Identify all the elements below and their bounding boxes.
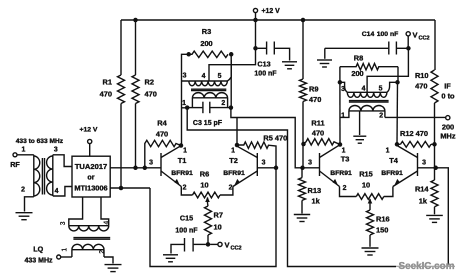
terminal LQ [57, 255, 61, 259]
ground C14 [317, 60, 332, 67]
label T2 pin2 [229, 185, 233, 192]
junction base/R2 [133, 166, 138, 171]
node TR2 right [395, 80, 400, 85]
label T3 [341, 155, 350, 164]
svg-text:1k: 1k [419, 197, 428, 206]
svg-text:470: 470 [145, 90, 157, 99]
svg-text:MHz: MHz [440, 132, 455, 141]
junction C13 branch [253, 46, 258, 51]
svg-text:R9: R9 [309, 85, 318, 94]
label TR1 pin1 [182, 100, 186, 107]
svg-text:V: V [225, 241, 230, 250]
wire TUA pin7 to T1 base [110, 167, 161, 169]
wire +12V drop to tap [209, 20, 256, 81]
wire pin1 to T2/T4 bases [187, 108, 448, 267]
ground C15 [163, 255, 178, 262]
node TR1 pin2 [229, 105, 234, 110]
wire TUA pin6 [110, 187, 150, 189]
label RF pin1 [21, 147, 25, 154]
svg-text:200: 200 [351, 69, 363, 78]
svg-text:4: 4 [362, 86, 366, 93]
label TR2 pin4 [362, 86, 366, 93]
wire T2 emitter lead [220, 187, 233, 196]
label R2 [145, 78, 157, 99]
junction rail/R2 [133, 18, 138, 23]
svg-text:2: 2 [379, 112, 383, 119]
svg-text:V: V [413, 31, 418, 40]
junction T3 base [300, 166, 305, 171]
svg-text:R4: R4 [157, 119, 167, 128]
node T3 collector [338, 142, 343, 147]
svg-text:R8: R8 [354, 54, 363, 63]
wire IF line [385, 116, 446, 118]
node TR2 left [338, 80, 343, 85]
svg-text:4: 4 [104, 221, 111, 225]
wire R9 bottom lead [302, 102, 304, 168]
ground LO [105, 265, 122, 272]
wire pin6 loop to T2 base [150, 168, 276, 267]
label RF pin4 [55, 188, 59, 195]
resistor R13 [299, 168, 306, 214]
label T1 [178, 156, 187, 165]
label LO pin2 [99, 250, 106, 254]
transistor T4 [393, 146, 418, 187]
wire TR2 right column [396, 82, 399, 144]
svg-text:10: 10 [200, 181, 208, 190]
svg-text:IF: IF [444, 82, 451, 91]
wire T1 emitter lead [181, 187, 192, 196]
svg-text:RF: RF [10, 160, 20, 169]
wire R6 wiper to R7 [207, 203, 210, 206]
svg-text:1: 1 [342, 148, 346, 155]
core TR1 [191, 89, 226, 90]
wire T2 base [257, 167, 276, 169]
label R14 [415, 185, 429, 206]
capacitor C15 [171, 238, 206, 254]
svg-text:470: 470 [312, 129, 324, 138]
wire TR1 right side [230, 54, 232, 107]
transistor T3 [320, 145, 341, 187]
svg-text:R13: R13 [308, 186, 322, 195]
wire RF to winding [17, 154, 34, 156]
wire R8 left down [339, 67, 341, 83]
svg-text:+12 V: +12 V [262, 8, 281, 15]
label T4 pin3 [422, 160, 426, 167]
wire right column mid [434, 144, 436, 168]
label MHz [440, 132, 455, 141]
svg-text:10: 10 [214, 223, 222, 232]
wire RF sec top to TUA [53, 155, 72, 167]
ground R16 [362, 248, 379, 255]
wire TR2 ground stub [359, 111, 361, 135]
wire T3 emitter lead [340, 187, 357, 197]
wire LO right to ground [104, 257, 113, 264]
wire +12V to box [89, 144, 91, 157]
label T3 pin3 [308, 160, 312, 167]
label T3 pin2 [343, 185, 347, 192]
label 0 to [441, 92, 455, 101]
svg-text:433 MHz: 433 MHz [24, 258, 53, 265]
terminal RF [13, 153, 17, 157]
junction VCC2/C14 [406, 46, 411, 51]
wire R10 bottom lead [434, 103, 436, 144]
svg-text:10: 10 [362, 181, 370, 190]
wire R15 wiper to R16 [369, 205, 371, 211]
wire R1 bottom lead [120, 104, 122, 189]
resistor R14 [431, 168, 438, 215]
svg-text:1: 1 [62, 248, 69, 252]
winding TR2 secondary [340, 106, 385, 118]
resistor R16 [367, 210, 374, 235]
svg-text:1: 1 [21, 147, 25, 154]
junction R9/R11 [301, 142, 306, 147]
wire TR2 left column [339, 82, 341, 144]
winding RF secondary [47, 155, 53, 196]
svg-text:1: 1 [231, 148, 235, 155]
label T3 BFR91 [330, 170, 352, 177]
wire VCC2 to tap4 [367, 48, 408, 92]
node T2 collector [235, 143, 240, 148]
watermark SeekIC.com [396, 261, 456, 272]
svg-text:T3: T3 [341, 155, 350, 164]
label +12 V top [262, 8, 281, 15]
label R5 470 [263, 133, 287, 142]
svg-text:200: 200 [442, 123, 454, 132]
svg-text:3: 3 [54, 147, 58, 154]
capacitor C14 [325, 42, 409, 55]
svg-text:C15: C15 [180, 214, 193, 223]
svg-text:R11: R11 [311, 119, 324, 128]
label R6 pin2 left [0, 0, 1, 1]
resistor R3 [189, 51, 228, 57]
core RF [42, 158, 44, 195]
svg-text:433 to 633 MHz: 433 to 633 MHz [16, 138, 64, 145]
core TR2 [349, 101, 389, 102]
label R1 [100, 78, 112, 99]
label R4 [156, 119, 168, 139]
wire LO left to terminal [61, 256, 72, 258]
wire R16 to ground [369, 235, 371, 247]
node TR1 pin1 [185, 105, 190, 110]
svg-text:150: 150 [376, 226, 388, 235]
label R15 [359, 170, 373, 190]
label TR1 pin4 [202, 73, 206, 80]
wire R2 bottom lead [135, 104, 137, 168]
node T2 base [274, 166, 279, 171]
label LQ [33, 245, 43, 254]
resistor R4 [145, 140, 181, 168]
label T4 BFR91 [381, 170, 403, 177]
svg-text:3: 3 [60, 221, 67, 225]
wire R1 top lead [120, 20, 122, 75]
label 433 to 633 MHz [16, 138, 64, 145]
label TR2 pin3 [341, 86, 345, 93]
label T4 pin1 [386, 148, 390, 155]
svg-text:2: 2 [229, 185, 233, 192]
label R6 [200, 170, 209, 190]
svg-text:BFR91: BFR91 [223, 170, 245, 177]
label TR1 pin3 [183, 73, 187, 80]
terminal IF [446, 116, 450, 120]
svg-text:470: 470 [156, 130, 168, 139]
label R13 [308, 186, 322, 206]
svg-text:R5 470: R5 470 [263, 133, 287, 142]
svg-text:R10: R10 [415, 71, 429, 80]
svg-text:R2: R2 [145, 78, 154, 87]
svg-text:T1: T1 [178, 156, 187, 165]
wire R9 top lead [302, 20, 304, 79]
resistor R7 [205, 206, 212, 235]
wire RF sec bottom to TUA [53, 187, 72, 197]
winding RF primary [34, 155, 40, 197]
resistor R10 [431, 70, 438, 103]
junction T4 base [433, 166, 438, 171]
label LO pin1 [62, 248, 69, 252]
svg-text:BFR91: BFR91 [330, 170, 352, 177]
label R9 [309, 85, 321, 105]
label R10 [415, 71, 429, 91]
ground C13 [282, 62, 297, 69]
terminal VCC2 bottom [218, 242, 222, 246]
svg-text:R3: R3 [202, 27, 211, 36]
svg-text:3: 3 [422, 160, 426, 167]
node T4 collector [395, 142, 400, 147]
svg-text:2: 2 [343, 185, 347, 192]
svg-text:T4: T4 [389, 156, 399, 165]
wire R7 to VCC2 [207, 235, 209, 244]
label R8 200 [351, 69, 363, 78]
label C3 [193, 120, 223, 127]
svg-text:3: 3 [308, 160, 312, 167]
svg-text:1: 1 [386, 148, 390, 155]
svg-text:5: 5 [218, 73, 222, 80]
svg-text:CC2: CC2 [231, 246, 242, 252]
ground R14 [426, 215, 443, 222]
svg-text:1: 1 [341, 112, 345, 119]
svg-text:470: 470 [309, 95, 321, 104]
label T1 pin2 [183, 185, 187, 192]
wire VCC2 bottom lead [210, 243, 218, 245]
svg-text:2: 2 [183, 185, 187, 192]
svg-text:BFR91: BFR91 [171, 170, 193, 177]
junction R7/C15 [206, 242, 211, 247]
label TR2 pin2 [379, 112, 383, 119]
label TUA2017 [74, 162, 107, 193]
resistor R6 trimmer [193, 192, 221, 203]
svg-text:100 nF: 100 nF [175, 228, 198, 235]
terminal VCC2 top [406, 32, 410, 36]
ground R13 [294, 215, 310, 222]
svg-text:0 to: 0 to [441, 92, 455, 101]
label RF pin2 [21, 187, 25, 194]
junction base/R4 [143, 166, 148, 171]
winding TR1 secondary [192, 93, 227, 108]
svg-text:200: 200 [200, 39, 212, 48]
label T2 pin3 [262, 160, 266, 167]
resistor R15 trimmer [356, 194, 384, 205]
junction pin6/R1 [119, 186, 124, 191]
ic TUA2017 box [72, 156, 110, 197]
label 433 MHz [24, 258, 53, 265]
svg-text:R15: R15 [359, 170, 373, 179]
label RF [10, 160, 20, 169]
wire T2 collector up [236, 118, 238, 146]
wire RF primary to gnd [25, 197, 34, 212]
svg-text:R6: R6 [200, 170, 209, 179]
label 200 [442, 123, 454, 132]
label TR2 pin5 [379, 86, 383, 93]
wire R2 top lead [135, 20, 137, 75]
svg-text:2: 2 [221, 100, 225, 107]
label C14 100nF [362, 31, 399, 38]
ground TR2 [353, 136, 366, 143]
svg-text:T2: T2 [229, 156, 238, 165]
wire TR1 left side [182, 54, 189, 145]
label LO pin4 [104, 221, 111, 225]
winding LO secondary [72, 244, 104, 257]
junction rail/+12V [253, 18, 258, 23]
svg-text:R16: R16 [376, 215, 390, 224]
svg-text:1: 1 [182, 100, 186, 107]
wire TUA bottom pins [69, 197, 109, 226]
svg-text:C14: C14 [362, 31, 375, 38]
label T2 pin1 [231, 148, 235, 155]
label +12V TUA [80, 127, 98, 134]
svg-text:470: 470 [100, 90, 112, 99]
label T2 BFR91 [223, 170, 245, 177]
label R16 [376, 215, 390, 235]
label T1 pin3 [149, 160, 153, 167]
ground C14 stub [324, 48, 326, 59]
label RF pin3 [54, 147, 58, 154]
svg-text:or: or [87, 173, 94, 182]
ground RF [16, 213, 33, 220]
label LO pin3 [60, 221, 67, 225]
svg-text:4: 4 [55, 188, 59, 195]
label TR1 pin5 [218, 73, 222, 80]
svg-text:3: 3 [262, 160, 266, 167]
winding LO primary [69, 226, 109, 231]
label VCC2 bottom [225, 241, 242, 252]
svg-text:5: 5 [379, 86, 383, 93]
wire VCC2 top lead [407, 36, 409, 48]
wire R12 leads [397, 143, 435, 145]
transistor T2 [233, 146, 257, 186]
svg-text:R12 470: R12 470 [400, 129, 428, 138]
wire pin2 to T3 base [231, 108, 320, 168]
svg-text:3: 3 [149, 160, 153, 167]
winding TR2 primary [340, 82, 398, 97]
label R12 470 [400, 129, 428, 138]
svg-text:+12 V: +12 V [80, 127, 98, 134]
resistor R1 [118, 75, 125, 104]
wire T4 base [418, 167, 436, 169]
wire R10 top lead [434, 20, 436, 70]
label TR1 pin2 [221, 100, 225, 107]
label R11 [311, 119, 324, 138]
svg-text:LQ: LQ [33, 245, 43, 254]
capacitor C3 [187, 102, 231, 114]
resistor R2 [132, 75, 139, 104]
core LO [73, 238, 110, 240]
junction rail/R9 [301, 18, 306, 23]
svg-text:C3 15 pF: C3 15 pF [193, 120, 223, 127]
svg-text:BFR91: BFR91 [381, 170, 403, 177]
svg-text:1: 1 [183, 148, 187, 155]
label T4 [389, 156, 399, 165]
resistor R9 [300, 79, 307, 102]
label R7 [214, 211, 223, 232]
terminal +12V top [253, 8, 257, 20]
wire top +12V rail [121, 19, 435, 21]
label VCC2 top [413, 31, 430, 42]
svg-text:100 nF: 100 nF [254, 71, 277, 78]
wire T4 emitter lead [384, 187, 393, 197]
junction R12 right [432, 142, 437, 147]
label T2 [229, 156, 238, 165]
resistor R5 [237, 142, 276, 168]
svg-text:470: 470 [415, 82, 427, 91]
svg-text:2: 2 [21, 187, 25, 194]
node R3 right [229, 52, 234, 57]
label C15 [175, 214, 198, 235]
svg-text:4: 4 [202, 73, 206, 80]
wire R8 right down [397, 67, 399, 83]
svg-text:C13: C13 [257, 60, 270, 69]
svg-text:3: 3 [183, 73, 187, 80]
svg-text:2: 2 [99, 250, 106, 254]
svg-text:CC2: CC2 [419, 36, 430, 42]
svg-text:TUA2017: TUA2017 [75, 162, 108, 171]
label T3 pin1 [342, 148, 346, 155]
svg-text:R7: R7 [214, 211, 223, 220]
label T1 BFR91 [171, 170, 193, 177]
label R3 [200, 27, 212, 48]
label T1 pin1 [183, 148, 187, 155]
svg-text:1k: 1k [312, 197, 321, 206]
resistor R11 [304, 139, 341, 145]
label TR2 pin1 [341, 112, 345, 119]
terminal +12V TUA [88, 139, 92, 143]
svg-text:R1: R1 [103, 78, 112, 87]
resistor R8 [340, 64, 398, 70]
svg-text:R14: R14 [415, 185, 429, 194]
svg-text:MTI13006: MTI13006 [74, 184, 107, 193]
winding TR1 primary [189, 60, 231, 86]
label C13 [254, 60, 277, 78]
svg-text:100 nF: 100 nF [377, 31, 399, 38]
label IF [444, 82, 451, 91]
capacitor C13 [258, 42, 290, 61]
node R3 left [186, 52, 191, 57]
label R8 [354, 54, 363, 63]
transistor T1 [161, 146, 181, 187]
resistor R12 [401, 141, 432, 147]
node T1 collector [179, 143, 184, 148]
